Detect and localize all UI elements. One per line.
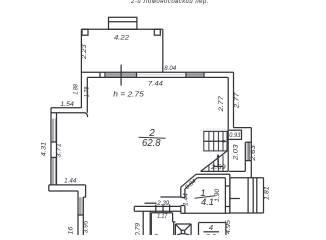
right wall inner line xyxy=(227,77,229,171)
svg-text:2.77: 2.77 xyxy=(234,92,241,110)
svg-text:1.54: 1.54 xyxy=(60,101,74,108)
window W4 opening xyxy=(51,141,57,143)
stair arrow lower xyxy=(217,156,219,167)
window W4 hatch lower part xyxy=(52,157,55,185)
dimension leader left of room 1 xyxy=(161,196,181,198)
T-wall bottom middle: bar xyxy=(134,205,181,207)
svg-text:3.71: 3.71 xyxy=(55,143,62,158)
upper room left wall xyxy=(80,29,82,108)
svg-text:4.95: 4.95 xyxy=(225,219,232,234)
svg-text:1.78: 1.78 xyxy=(84,86,90,97)
room 1 left wall with door opening xyxy=(180,187,182,197)
svg-text:4: 4 xyxy=(209,223,213,232)
stair arrow upper xyxy=(204,140,225,142)
svg-text:1.88: 1.88 xyxy=(73,84,79,95)
pier top-right xyxy=(154,29,160,35)
right wall outer line xyxy=(233,72,235,127)
wall segment right of stairs xyxy=(229,170,245,172)
svg-text:4.22: 4.22 xyxy=(114,35,130,42)
window W1 hatch in top wall xyxy=(105,73,137,76)
window jamb box in top wall xyxy=(99,72,101,77)
room 1 right wall xyxy=(224,178,226,214)
pier at bend xyxy=(85,185,87,197)
T-wall stem xyxy=(142,211,144,235)
stair break diagonal xyxy=(201,151,227,171)
room 4 xyxy=(199,222,226,224)
lower-left wall going down xyxy=(77,191,79,235)
balcony at top xyxy=(109,17,137,29)
svg-text:1.90: 1.90 xyxy=(215,188,221,202)
svg-text:1.44: 1.44 xyxy=(64,178,77,185)
room 1 fraction line xyxy=(195,196,216,199)
svg-text:3.95: 3.95 xyxy=(82,220,89,233)
room 2 fraction line xyxy=(139,137,166,138)
svg-text:2.77: 2.77 xyxy=(218,95,225,113)
left outer wall xyxy=(50,108,52,185)
room 1 bottom wall xyxy=(181,212,230,214)
window W5 opening sill xyxy=(78,214,83,216)
left wall upper inner line xyxy=(86,77,88,112)
window W2 hatch in top wall xyxy=(185,72,187,77)
closet 1.17 xyxy=(151,212,172,214)
loggia window hatch wall xyxy=(247,178,249,213)
svg-text:0.93: 0.93 xyxy=(229,133,241,139)
dim box 0.93 xyxy=(228,130,241,139)
dimension leader left of 2.39 xyxy=(145,202,157,204)
right wall step xyxy=(234,127,252,129)
window W4 hatch upper part xyxy=(52,119,55,142)
wall 1.54 band xyxy=(51,107,81,109)
svg-text:1.81: 1.81 xyxy=(263,186,270,200)
svg-text:2.9: 2.9 xyxy=(205,232,217,235)
svg-text:1.17: 1.17 xyxy=(157,213,167,220)
main top wall band xyxy=(81,71,233,73)
window W3 in right wall xyxy=(244,142,246,171)
svg-text:62.8: 62.8 xyxy=(142,138,161,149)
svg-text:7.44: 7.44 xyxy=(148,81,164,88)
pier top-left xyxy=(82,29,88,35)
svg-text:1.44: 1.44 xyxy=(183,193,189,206)
corner quarter-round notch xyxy=(84,113,88,117)
wall 1.44 band xyxy=(49,184,86,186)
upper room right wall xyxy=(162,29,164,72)
svg-text:0.84: 0.84 xyxy=(185,178,198,191)
svg-text:2.39: 2.39 xyxy=(156,200,170,207)
upper room top wall xyxy=(82,28,163,30)
dimension ticks on bar xyxy=(155,205,157,214)
room 1 chamfer walls xyxy=(181,174,196,187)
ghost smudge above stairs xyxy=(201,129,227,132)
svg-text:2-и Ломоносовскии пер.: 2-и Ломоносовскии пер. xyxy=(130,0,209,5)
svg-text:6: 6 xyxy=(153,233,158,236)
dimension leader right of room 1 xyxy=(230,198,240,200)
stair enclosure block xyxy=(204,131,227,151)
svg-text:2.69: 2.69 xyxy=(210,164,226,171)
svg-text:4.31: 4.31 xyxy=(40,142,47,157)
svg-text:h = 2.75: h = 2.75 xyxy=(113,90,144,99)
svg-text:0.79: 0.79 xyxy=(135,222,142,235)
bottom-right loggia xyxy=(230,177,264,179)
svg-text:2.63: 2.63 xyxy=(250,144,257,162)
window W5 hatch xyxy=(79,197,82,215)
stair treads upper flight xyxy=(208,131,210,151)
stair treads lower flight xyxy=(209,155,223,171)
svg-text:2.03: 2.03 xyxy=(233,144,240,162)
svg-text:8.04: 8.04 xyxy=(164,65,177,72)
window separator line xyxy=(120,65,122,86)
svg-text:4.1: 4.1 xyxy=(201,197,214,208)
stair bottom wall xyxy=(201,170,229,172)
room 4 fraction line xyxy=(204,231,220,233)
elevator shaft xyxy=(175,223,191,225)
svg-text:4.16: 4.16 xyxy=(68,226,75,235)
room 1 top wall xyxy=(196,173,230,175)
svg-text:2.23: 2.23 xyxy=(81,44,88,60)
